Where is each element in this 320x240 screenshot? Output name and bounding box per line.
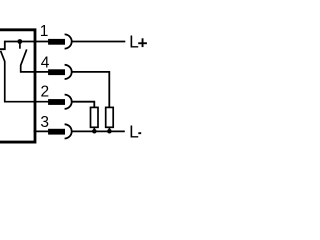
resistor R2	[106, 107, 114, 131]
resistor R1	[91, 107, 99, 131]
sensor body box (left edge off-canvas)	[0, 30, 35, 142]
node: junction dot R1 / L- rail	[92, 129, 97, 134]
svg-text:L: L	[129, 32, 139, 52]
pin 3 contact (rect + socket arc)	[48, 124, 72, 138]
second pole blade + wire to pin 2	[1, 51, 50, 102]
switch fixed contact stub	[19, 42, 21, 49]
pin 1 contact (rect + socket arc)	[48, 34, 72, 48]
node: junction dot on pin1 wire	[17, 39, 22, 44]
pin 2 contact (rect + socket arc)	[48, 95, 72, 109]
svg-text:4: 4	[41, 54, 50, 71]
wire: pin4 loop to resistor R2	[72, 72, 109, 109]
svg-text:2: 2	[40, 84, 49, 101]
wire: pin1 to L+	[72, 41, 125, 43]
pin 4 contact (rect + socket arc)	[48, 65, 72, 79]
wire: box to pin 3 contact	[34, 130, 50, 132]
wire: pin3 to L- rail	[72, 130, 125, 132]
svg-text:3: 3	[40, 114, 49, 131]
wire: pin2 loop to resistor R1	[72, 102, 94, 109]
node: junction dot R2 / L- rail	[107, 129, 112, 134]
svg-text:1: 1	[40, 23, 49, 40]
wire: L+ feed into box with step to left edge	[0, 42, 50, 50]
switch blade (open contact) + wire to pin 4	[21, 49, 50, 72]
svg-text:L: L	[129, 122, 139, 142]
